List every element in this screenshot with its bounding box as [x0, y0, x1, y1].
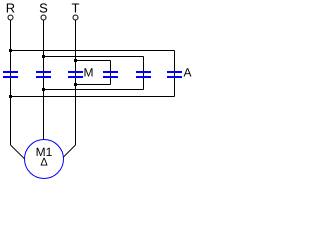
svg-text:Δ: Δ — [40, 157, 48, 169]
wire: bypass branch vertical at x=143.5 — [143, 57, 145, 90]
wire: phase T vertical — [75, 20, 77, 145]
contact on phase R — [3, 71, 18, 73]
wire: return line to S — [44, 89, 144, 91]
terminal circle S — [41, 15, 46, 20]
node: junction S top — [42, 55, 45, 58]
wire: bottom bus to R — [11, 96, 175, 98]
wire: phase S vertical — [43, 20, 45, 140]
svg-text:T: T — [72, 1, 80, 16]
contact A — [167, 71, 182, 73]
wire: phase T diagonal to motor — [63, 145, 75, 157]
terminal circle R — [8, 15, 13, 20]
wire: bypass branch A vertical — [174, 51, 176, 97]
node: junction R top — [9, 49, 12, 52]
node: junction T top — [74, 59, 77, 62]
wire: phase R diagonal to motor — [11, 145, 25, 159]
wire: box right edge — [110, 61, 112, 85]
svg-text:S: S — [39, 1, 48, 16]
svg-text:M: M — [84, 66, 94, 80]
contact on phase T — [68, 71, 83, 73]
wire: box bottom to T — [76, 84, 111, 86]
node: junction S bottom — [42, 88, 45, 91]
wire: top bus from R — [11, 50, 175, 52]
wire: box top from T — [76, 60, 111, 62]
motor M1 circle — [25, 140, 64, 179]
wire: bus from S — [44, 56, 144, 58]
svg-text:R: R — [6, 1, 15, 16]
wire: phase R vertical — [10, 20, 12, 145]
contact on branch x=143.5 — [136, 71, 151, 73]
contact on phase S — [36, 71, 51, 73]
contact M parallel branch — [103, 71, 118, 73]
terminal circle T — [73, 15, 78, 20]
node: junction R bottom — [9, 95, 12, 98]
svg-text:A: A — [183, 66, 191, 80]
node: junction T bottom — [74, 83, 77, 86]
